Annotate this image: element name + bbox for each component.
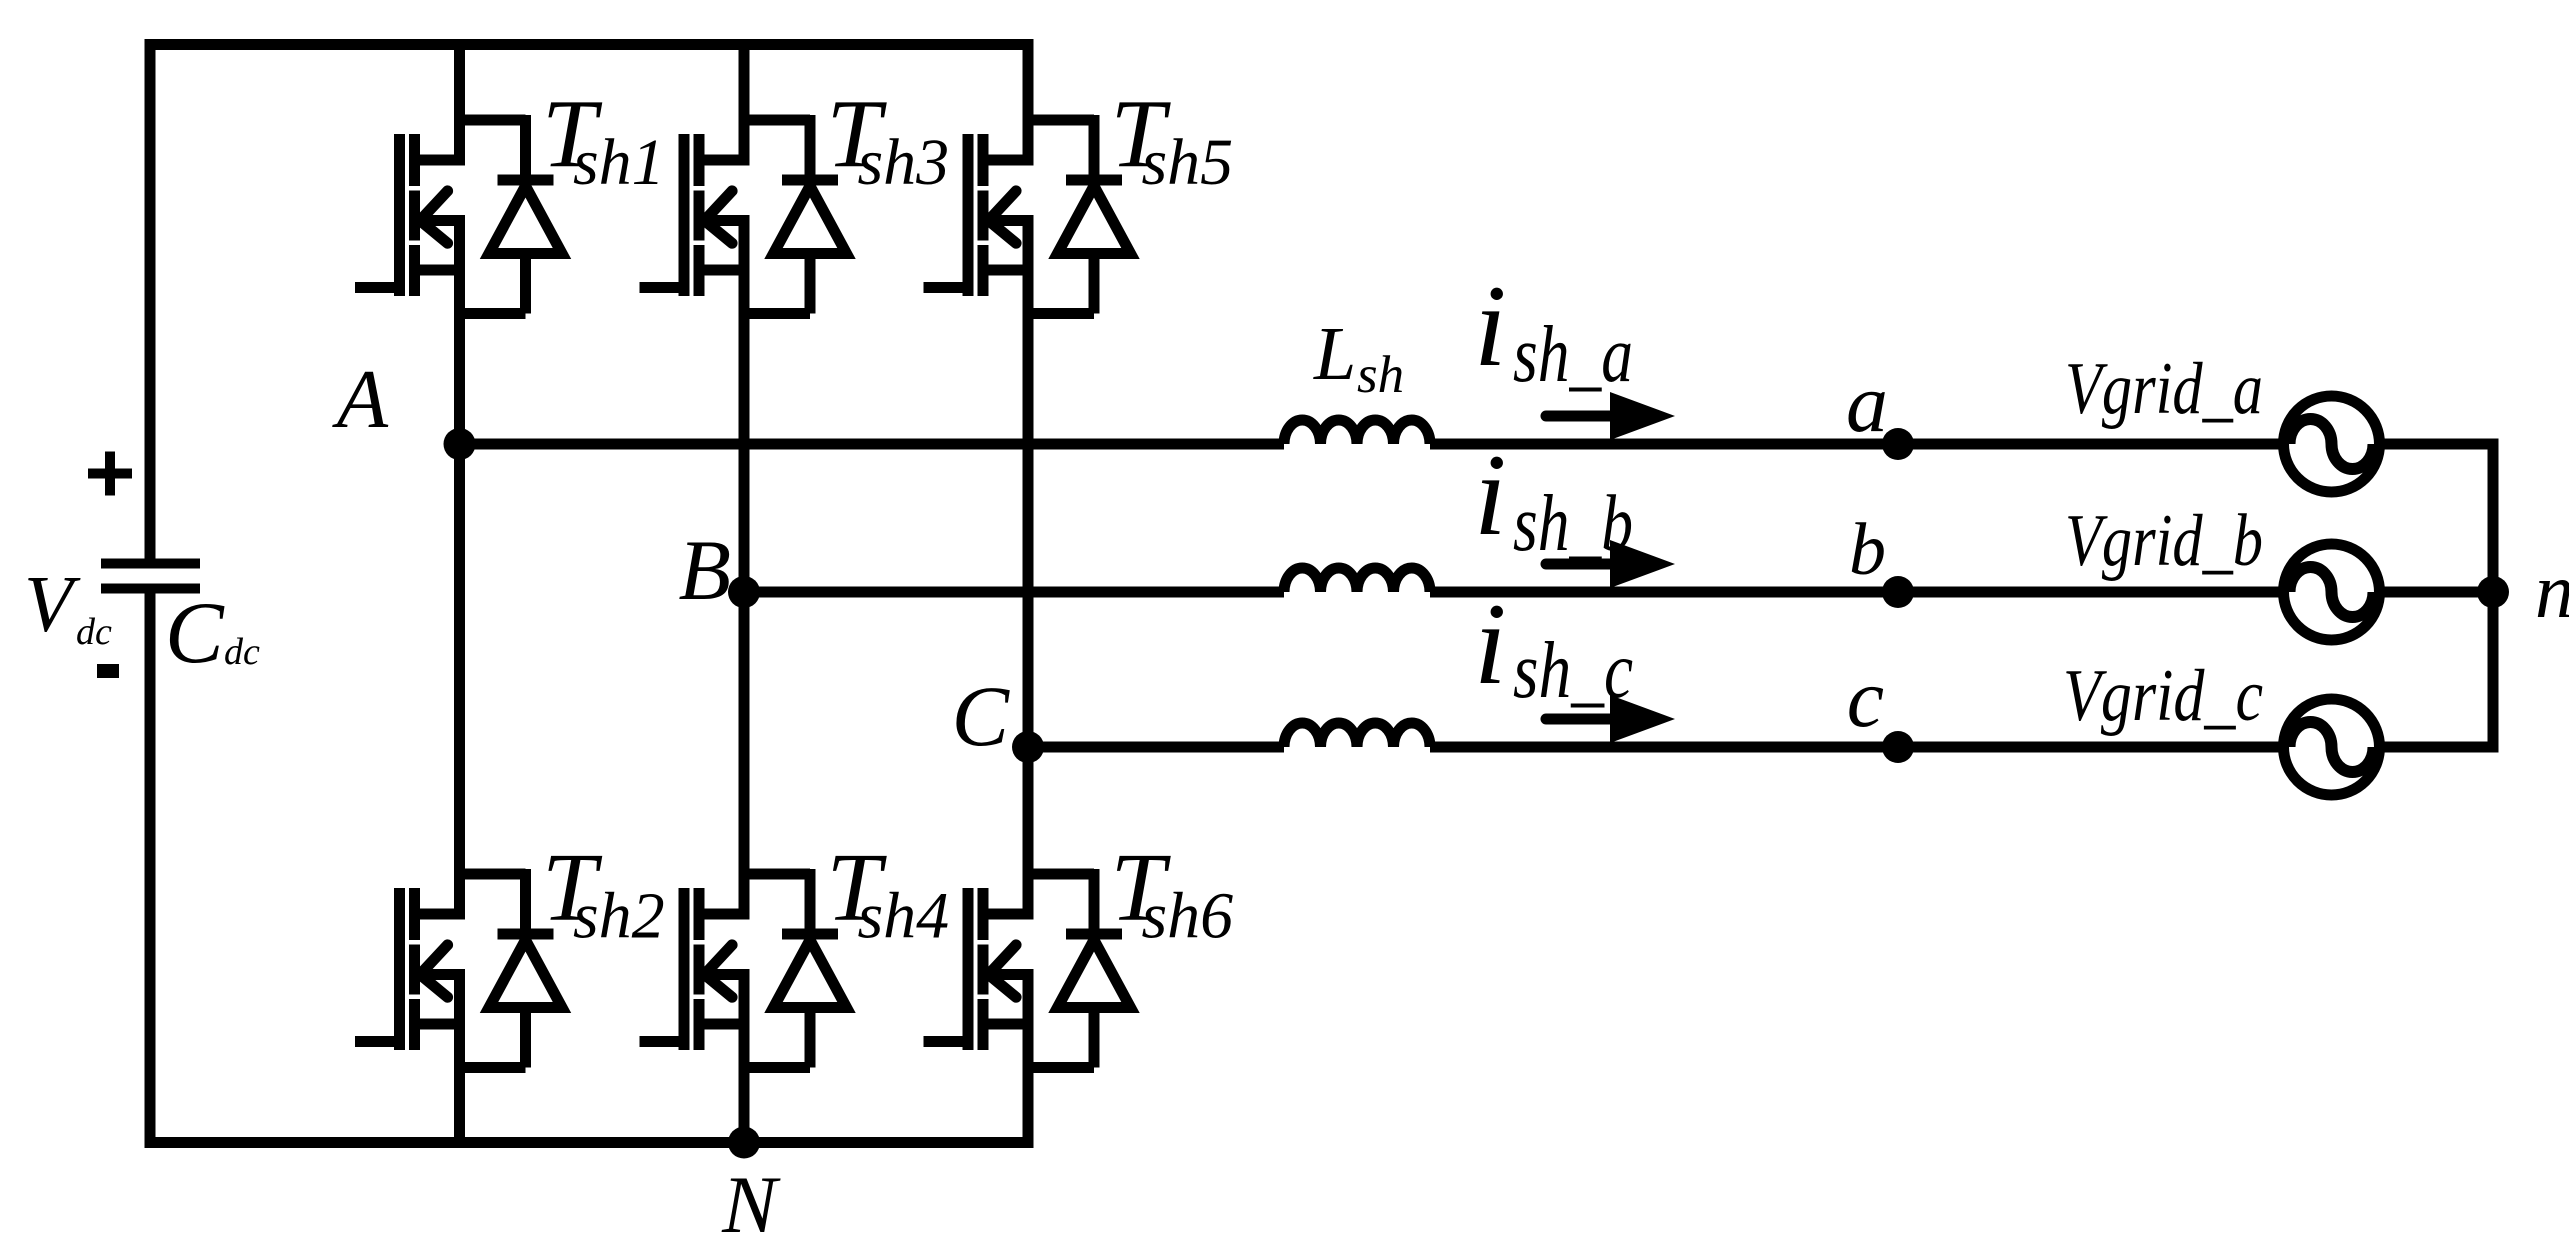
wire: leg B middle (Tsh3 source through node B to Tsh4 drain) <box>739 221 750 920</box>
wire: leg C middle (Tsh5 source through node C to Tsh6 drain) <box>1023 221 1034 920</box>
transistor Tsh3 (MOSFET with anti-parallel diode) <box>640 115 847 314</box>
wire: phase b from inductor to source Vgrid_b <box>1430 587 2284 598</box>
svg-text:sh: sh <box>1357 346 1404 404</box>
node n junction dot <box>2477 576 2509 608</box>
node c junction dot <box>1882 731 1914 763</box>
AC source Vgrid_b <box>2284 544 2380 640</box>
wire: phase b from node B to inductor <box>744 587 1284 598</box>
wire: leg B upper (bus to Tsh3 drain) <box>739 45 750 166</box>
capacitor Cdc plates <box>101 564 200 589</box>
wire: leg A lower (Tsh2 source to bottom bus) <box>454 975 465 1149</box>
svg-text:c: c <box>1847 652 1884 745</box>
minus sign of Vdc <box>97 664 119 678</box>
svg-text:a: a <box>1846 357 1888 450</box>
svg-text:sh_c: sh_c <box>1513 627 1633 715</box>
inductor phase b <box>1284 568 1430 592</box>
inductor phase c <box>1284 723 1430 747</box>
wire: left DC rail lower (from capacitor) <box>145 589 156 1149</box>
svg-text:Vgrid_b: Vgrid_b <box>2065 500 2263 582</box>
svg-text:B: B <box>678 522 731 618</box>
node B junction dot <box>728 576 760 608</box>
svg-text:i: i <box>1474 431 1507 560</box>
node b junction dot <box>1882 576 1914 608</box>
transistor Tsh6 (MOSFET with anti-parallel diode) <box>924 869 1131 1068</box>
svg-text:C: C <box>952 668 1011 764</box>
wire: phase c from node C to inductor <box>1028 742 1284 753</box>
node N junction dot <box>728 1127 760 1159</box>
wire: leg A middle (Tsh1 source through node A to Tsh2 drain) <box>454 221 465 920</box>
svg-text:L: L <box>1313 312 1356 396</box>
wire: phase b from source to node n <box>2379 587 2493 598</box>
inductor Lsh phase a <box>1284 420 1430 444</box>
svg-text:sh2: sh2 <box>573 880 665 953</box>
current arrow ish_b <box>1546 540 1675 588</box>
wire: leg B lower (Tsh4 source to bottom bus) <box>739 975 750 1149</box>
current arrow ish_a <box>1546 392 1675 440</box>
wire: top DC bus <box>145 39 1034 50</box>
wire: phase a from source to right rail <box>2379 439 2499 450</box>
svg-text:Vgrid_c: Vgrid_c <box>2063 655 2263 737</box>
AC source Vgrid_a <box>2284 396 2380 492</box>
svg-text:sh_b: sh_b <box>1513 480 1633 568</box>
node a junction dot <box>1882 428 1914 460</box>
wire: phase c from inductor to source Vgrid_c <box>1430 742 2284 753</box>
svg-text:N: N <box>721 1159 781 1248</box>
svg-text:b: b <box>1849 509 1886 591</box>
svg-text:n: n <box>2535 547 2569 634</box>
node A junction dot <box>444 428 476 460</box>
svg-text:sh4: sh4 <box>858 880 950 953</box>
transistor Tsh2 (MOSFET with anti-parallel diode) <box>355 869 562 1068</box>
svg-text:i: i <box>1474 262 1507 391</box>
svg-text:Vgrid_a: Vgrid_a <box>2065 348 2263 430</box>
transistor Tsh4 (MOSFET with anti-parallel diode) <box>640 869 847 1068</box>
svg-text:sh5: sh5 <box>1142 126 1234 199</box>
node C junction dot <box>1012 731 1044 763</box>
svg-text:i: i <box>1474 580 1507 709</box>
wire: leg C upper (bus to Tsh5 drain) <box>1023 45 1034 166</box>
wire: right rail joining three sources at node n <box>2488 439 2499 753</box>
wire: phase c from source to right rail <box>2379 742 2499 753</box>
AC source Vgrid_c <box>2284 699 2380 795</box>
svg-text:sh3: sh3 <box>858 126 950 199</box>
wire: phase a from inductor to source Vgrid_a <box>1430 439 2284 450</box>
wire: leg A upper (bus to Tsh1 drain) <box>454 45 465 166</box>
wire: phase a from node A to inductor <box>460 439 1285 450</box>
plus sign of Vdc <box>88 452 132 496</box>
svg-text:dc: dc <box>224 631 260 673</box>
svg-text:C: C <box>165 585 225 682</box>
wire: bottom DC bus <box>145 1137 1034 1148</box>
wire: leg C lower (Tsh6 source to bottom bus) <box>1023 975 1034 1149</box>
svg-text:sh6: sh6 <box>1142 880 1234 953</box>
wire: left DC rail upper (to capacitor) <box>145 39 156 559</box>
svg-text:sh_a: sh_a <box>1513 311 1633 399</box>
svg-text:V: V <box>24 561 81 649</box>
svg-text:A: A <box>332 353 389 446</box>
current arrow ish_c <box>1546 695 1675 743</box>
transistor Tsh1 (MOSFET with anti-parallel diode) <box>355 115 562 314</box>
svg-text:dc: dc <box>76 611 112 653</box>
transistor Tsh5 (MOSFET with anti-parallel diode) <box>924 115 1131 314</box>
svg-text:sh1: sh1 <box>573 126 665 199</box>
